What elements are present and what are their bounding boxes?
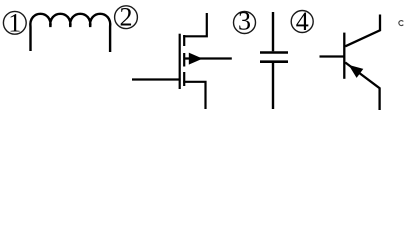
capacitor plate (top) (260, 51, 288, 54)
capacitor C1 (260, 12, 288, 109)
svg-text:4: 4 (296, 7, 309, 36)
svg-text:3: 3 (238, 7, 251, 36)
node 4 label (circled 4) (291, 7, 313, 36)
svg-text:2: 2 (120, 3, 133, 32)
node 1 label (circled 1) (3, 8, 26, 37)
node 3 label (circled 3) (234, 7, 256, 36)
MOSFET gate bar (179, 34, 181, 89)
inductor L1 (30, 14, 110, 52)
BJT emitter arrow (points toward base bar) (349, 65, 364, 78)
MOSFET Q1 (132, 13, 232, 109)
wire: drain connector (183, 13, 207, 36)
wire: gate lead (132, 78, 181, 80)
svg-text:1: 1 (8, 8, 21, 37)
wire: body lead (185, 57, 232, 59)
capacitor plate (bottom) (260, 60, 288, 63)
wire: source connector (183, 82, 205, 109)
transistor Q2 (PNP BJT) (320, 15, 381, 111)
wire: emitter lead (345, 63, 379, 111)
wire: capacitor bottom lead (272, 63, 274, 109)
MOSFET body arrow (points right) (189, 53, 203, 65)
MOSFET channel segment (source side) (183, 72, 185, 86)
MOSFET channel segment (body, middle) (183, 53, 185, 67)
node 2 label (circled 2) (115, 3, 138, 32)
BJT base bar (343, 33, 345, 79)
wire: capacitor top lead (272, 12, 274, 51)
wire: base lead (320, 55, 345, 57)
partial circled label 5 at right edge (399, 21, 403, 26)
wire: collector lead (345, 15, 380, 47)
MOSFET channel segment (drain side) (183, 35, 185, 46)
